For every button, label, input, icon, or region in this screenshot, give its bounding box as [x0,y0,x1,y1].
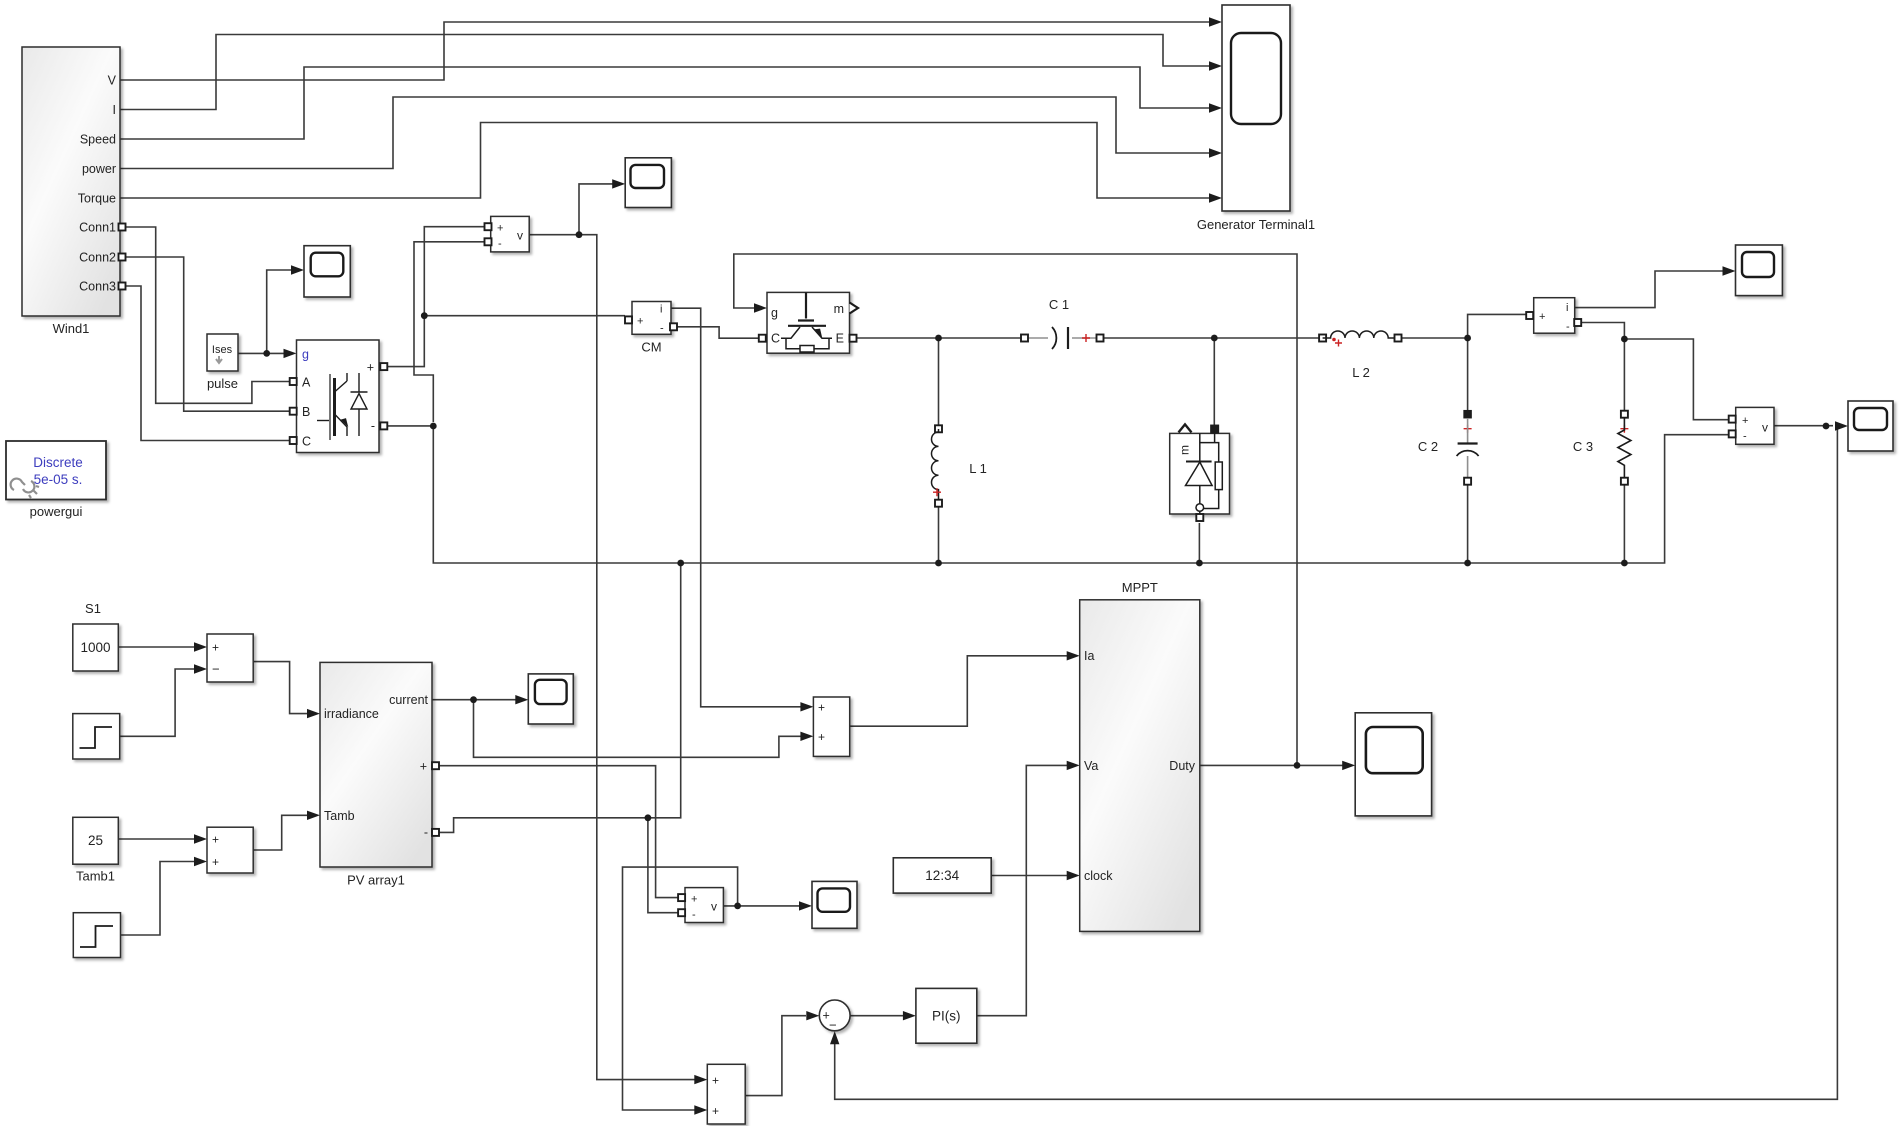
wire bridge + output up to node and v1 + [384,227,485,367]
block Scope2 [625,158,671,208]
svg-text:CM: CM [641,340,661,355]
svg-text:Conn1: Conn1 [79,221,116,235]
arrow into MPPT Ia [1067,651,1080,660]
wire v2 junction to sum3 bottom input [623,867,738,1110]
svg-text:+: + [212,833,219,847]
svg-text:+: + [691,894,697,906]
svg-text:MPPT: MPPT [1122,580,1158,595]
inductor L1 [931,425,986,506]
block powergui [6,441,106,519]
block i current measurement right [1534,298,1575,334]
arrow into sum circle bottom [830,1031,839,1044]
block Generator Terminal1 scope [1197,5,1315,232]
junction E-C1 node [935,335,942,342]
arrow into sum4 plus2 [800,732,813,741]
svg-text:i: i [660,304,662,316]
wire MPPT Duty to Scope5 [1200,764,1343,766]
svg-text:Wind1: Wind1 [53,321,90,336]
arrow into Scope3 [515,695,528,704]
wire sum circle to PI [850,1015,904,1017]
wire 12:34 to MPPT clock [991,875,1067,877]
svg-text:m: m [834,302,844,316]
svg-text:L 2: L 2 [1352,365,1370,380]
svg-text:−: − [829,1018,837,1033]
wire feedback from v3 junction down to sum circle [835,427,1838,1100]
svg-text:Speed: Speed [80,133,116,147]
arrow into bridge g [284,349,297,358]
wire node down to Diode top [1213,338,1215,425]
port i plus [1526,312,1533,319]
block digital clock 12:34 [893,858,991,893]
svg-text:power: power [82,162,116,176]
block pulse (Ises) [207,334,238,391]
svg-text:Discrete: Discrete [33,455,83,470]
svg-text:+: + [712,1104,719,1118]
arrow into sum3 plus2 [694,1105,707,1114]
block constant 25 [73,817,119,883]
junction bus C3 [1621,560,1628,567]
svg-text:+: + [420,760,427,774]
svg-text:V: V [108,74,117,88]
junction bridge minus node [430,423,437,430]
wire power Wind1 to Generator Terminal1 [120,97,1210,169]
svg-text:S1: S1 [85,601,101,616]
wire sum3 output to sum circle [745,1016,806,1096]
wire Torque Wind1 to Generator Terminal1 [120,123,1210,199]
arrow into Sum1 minus [194,664,207,673]
svg-text:-: - [424,826,428,840]
wire Duty to IGBT gate g [734,254,1297,765]
IGBT m output chevron [850,303,859,314]
wire PV current output to Scope3 [432,699,516,701]
junction v3 output [1823,423,1830,430]
block sum circle [819,1000,850,1033]
junction i-C3 node [1621,336,1628,343]
block sum3 [707,1064,745,1124]
block Scope4 [812,881,857,928]
wire C3 bottom to bus [1623,485,1625,563]
arrow into Scope4 [799,901,812,910]
svg-text:+: + [497,223,503,235]
svg-text:1000: 1000 [80,640,110,655]
svg-text:irradiance: irradiance [324,707,379,721]
wire pulse junction up to Scope1 [267,270,292,353]
wire CM - to IGBT C [674,327,760,338]
arrow into PV irradiance [307,709,320,718]
wire junction up to Scope2 [579,184,613,235]
arrow into MPPT Va [1067,761,1080,770]
IGBT icon [781,292,832,352]
block Scope3 [528,674,573,724]
block Scope6 far right [1848,401,1893,451]
port CM plus [625,316,632,323]
block Step [73,714,120,759]
wire V Wind1 to Generator Terminal1 [120,22,1210,80]
Diode m output chevron (up) [1179,424,1192,432]
port IGBT E [850,335,857,342]
arrow into GT port4 [1209,148,1222,157]
svg-text:g: g [302,348,309,362]
svg-text:Generator Terminal1: Generator Terminal1 [1197,217,1315,232]
wire IGBT E to C1 [856,337,1021,339]
svg-text:E: E [836,332,844,346]
diode symbol [1186,432,1223,514]
wire v1 - down to node B2 [414,242,485,422]
wire Speed Wind1 to Generator Terminal1 [120,67,1210,139]
wire Step to Sum1 minus input [120,669,195,736]
svg-text:I: I [113,103,116,117]
port v3 minus [1729,430,1736,437]
svg-text:-: - [660,323,664,335]
svg-text:C 1: C 1 [1049,297,1069,312]
wire L1 bottom to bus [938,507,940,563]
svg-text:g: g [771,306,778,320]
port PV plus [432,762,439,769]
port bridge B [290,408,297,415]
arrow into GT port2 [1209,61,1222,70]
svg-text:Duty: Duty [1169,759,1195,773]
svg-text:C: C [302,435,311,449]
junction bus PV [677,560,684,567]
svg-text:Tamb1: Tamb1 [76,869,115,884]
wire node C3 down to C3 top [1623,339,1625,411]
arrow into Scope1 [291,265,304,274]
svg-text:Tamb: Tamb [324,809,355,823]
arrow into GT port3 [1209,103,1222,112]
svg-text:C 2: C 2 [1418,439,1438,454]
junction C1-L2 node [1211,335,1218,342]
svg-text:+: + [367,361,374,375]
wire PV current junction down to sum4 input 2 [474,700,802,758]
port v3 plus [1729,416,1736,423]
resistor C3 [1573,411,1631,485]
svg-text:+: + [818,730,825,744]
port v2 plus [678,894,685,901]
wire node to CM + [424,315,625,317]
svg-text:-: - [1566,321,1570,333]
svg-text:+: + [1539,311,1545,323]
block PV array1 [320,662,432,887]
bridge IGBT-diode icon [317,373,368,440]
junction PV current [470,696,477,703]
arrow into Scope7 [1723,266,1736,275]
svg-text:+: + [212,855,219,869]
arrow into GT port1 [1209,17,1222,26]
svg-text:pulse: pulse [207,376,238,391]
block v3 voltage measurement right [1736,407,1774,444]
svg-text:-: - [498,238,502,250]
block MPPT [1080,580,1200,931]
svg-text:i: i [1566,302,1568,314]
svg-text:PV array1: PV array1 [347,873,405,888]
wire v2 output to Scope4 [723,905,800,907]
port PV minus [432,829,439,836]
block PI controller [916,988,977,1043]
block IGBT [767,292,858,353]
svg-text:-: - [692,909,696,921]
svg-text:Ises: Ises [212,344,233,356]
wire node C3 to v3 + [1624,339,1729,420]
arrow into PV Tamb [307,811,320,820]
block Scope1 [304,246,350,297]
block Universal Bridge [297,340,380,453]
svg-text:v: v [517,229,523,243]
wire v3 output to junction and Scope6 [1774,425,1833,427]
port bridge plus [380,363,387,370]
svg-text:+: + [1742,415,1748,427]
svg-text:v: v [711,900,717,914]
arrow into Scope5 [1342,761,1355,770]
wire PI output up to MPPT Va [977,765,1067,1015]
arrow into sum4 plus1 [800,702,813,711]
wire i - to node C3 [1581,323,1624,340]
block Diode [1170,424,1230,521]
wire Conn2 to bridge B [124,257,290,411]
arrow into Sum2 plus2 [194,857,207,866]
svg-text:C: C [771,332,780,346]
wire node P down to v2 - [648,818,678,913]
svg-text:5e-05 s.: 5e-05 s. [34,472,83,487]
wire node P up to bus [648,563,681,818]
wire i output to Scope7 [1575,271,1723,308]
port bridge C [290,437,297,444]
wire Conn1 to bridge A [124,227,290,403]
arrow into sum3 plus1 [694,1075,707,1084]
arrow into Sum1 plus [194,642,207,651]
svg-text:Torque: Torque [78,192,116,206]
svg-text:+: + [712,1074,719,1088]
junction PV minus [645,814,652,821]
svg-text:+: + [818,701,825,715]
wire Diode bottom to bus [1198,523,1200,563]
arrow into sum circle left [806,1011,819,1020]
svg-text:−: − [212,662,220,677]
wire bridge - output to node B2 [384,425,434,427]
block Scope5 [1355,713,1431,816]
block v2 voltage measurement [685,888,723,923]
wire node down to C2 top [1467,338,1469,411]
wire Conn3 to bridge C [124,286,290,441]
arrow into IGBT g [754,303,767,312]
block Sum1 [207,634,253,682]
arrow into PI [903,1011,916,1020]
block constant 1000 [73,624,119,671]
wire Sum2 output to PV Tamb [253,815,308,850]
svg-text:A: A [302,376,311,390]
block Wind1 [22,47,126,336]
junction bus diode [1196,560,1203,567]
wire Step1 to Sum2 input 2 [121,862,196,936]
wire C1 to L2 [1103,337,1319,339]
svg-text:-: - [371,419,375,433]
wire v1 output to junction and sum3 top input [529,235,696,1080]
junction bus L1 [935,560,942,567]
svg-text:v: v [1762,421,1768,435]
wire I Wind1 to Generator Terminal1 [120,35,1210,110]
junction v2 output [734,903,741,910]
wire pulse to bridge g [238,352,285,354]
block sum4 [813,697,849,756]
wire Sum1 1000 input [118,646,195,648]
wire node up to i + [1468,314,1526,338]
svg-text:m: m [1178,445,1192,455]
svg-text:L 1: L 1 [969,461,987,476]
svg-text:Conn3: Conn3 [79,280,116,294]
wire node E down to L1 [938,338,940,425]
svg-text:C 3: C 3 [1573,439,1593,454]
port IGBT C [759,335,766,342]
block CM current measurement [632,302,671,355]
svg-text:PI(s): PI(s) [932,1009,961,1024]
port CM minus [670,323,677,330]
wire 25 to Sum2 input [118,838,195,840]
svg-text:12:34: 12:34 [925,868,959,883]
port i minus [1574,319,1581,326]
svg-text:B: B [302,405,310,419]
svg-text:25: 25 [88,833,103,848]
junction pulse-g [263,350,270,357]
wire DC negative bus [433,426,1729,563]
port v1 minus [485,238,492,245]
junction bridge plus node [421,312,428,319]
inductor L2 [1319,331,1401,380]
svg-text:-: - [1743,431,1747,443]
port bridge minus [380,422,387,429]
arrow into Scope2 [612,179,625,188]
wire PV - to node P [439,818,648,833]
port v2 minus [678,909,685,916]
wire PV + to v2 + [439,766,678,898]
arrow into Scope6 [1835,421,1848,430]
wire L2 to node C2 [1401,337,1468,339]
svg-text:+: + [212,641,219,655]
svg-text:Ia: Ia [1084,649,1094,663]
svg-text:+: + [637,316,643,328]
block v1 voltage measurement [491,216,530,252]
wire CM i output down to sum4 input 1 [671,308,801,707]
wire Sum1 output to PV irradiance [253,662,308,714]
junction Duty-gate [1294,762,1301,769]
svg-text:powergui: powergui [30,504,83,519]
wire sum4 output to MPPT Ia [850,656,1067,726]
junction L2-C2 node [1464,335,1471,342]
block Step1 [73,913,120,958]
block Scope7 top right [1736,245,1783,296]
arrow into Sum2 plus1 [194,834,207,843]
svg-text:clock: clock [1084,869,1113,883]
arrow into MPPT clock [1067,871,1080,880]
capacitor C1 [1021,297,1104,349]
capacitor C2 [1418,411,1479,485]
junction v1 output [576,231,583,238]
port bridge A [290,378,297,385]
svg-text:Conn2: Conn2 [79,251,116,265]
wire C2 bottom to bus [1467,485,1469,563]
arrow into GT port5 [1209,193,1222,202]
svg-text:current: current [389,693,428,707]
junction bus C2 [1464,560,1471,567]
block Sum2 [207,827,253,873]
port v1 plus [485,223,492,230]
svg-text:Va: Va [1084,759,1098,773]
